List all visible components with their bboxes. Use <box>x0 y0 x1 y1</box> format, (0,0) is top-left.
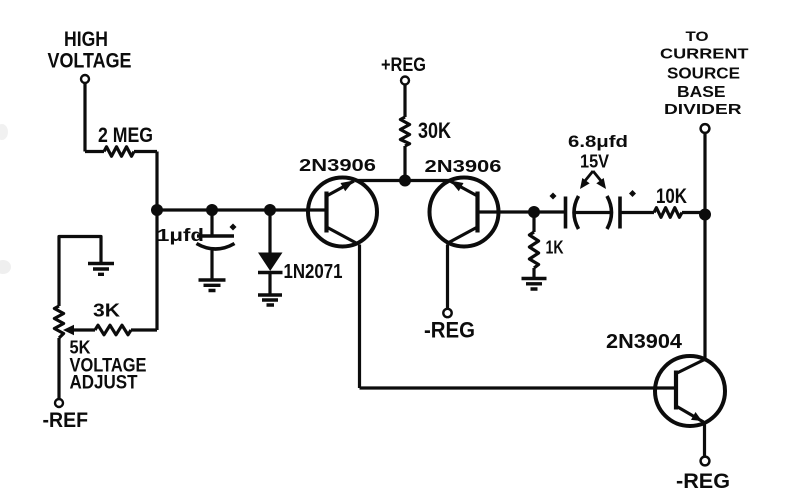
svg-text:-REF: -REF <box>43 409 89 432</box>
wire 10K to node F <box>682 211 705 214</box>
wire between capacitors <box>573 211 612 214</box>
svg-text:30K: 30K <box>418 118 451 143</box>
terminal -REG (Q3) <box>701 457 710 466</box>
svg-text:2 MEG: 2 MEG <box>98 124 153 147</box>
resistor 30K <box>400 117 409 146</box>
capacitor C3 6.8ufd plate <box>618 197 622 229</box>
resistor 10K <box>654 208 682 218</box>
svg-text:3K: 3K <box>93 301 120 321</box>
transistor Q1 2N3906 <box>308 178 377 247</box>
wire Q1 emitter to rail <box>355 179 405 182</box>
svg-text:1K: 1K <box>546 238 564 258</box>
capacitor 1ufd curved plate <box>197 244 235 250</box>
wiper arrow of pot <box>63 325 74 335</box>
svg-text:HIGH: HIGH <box>64 28 108 51</box>
svg-text:TO: TO <box>686 28 709 44</box>
terminal TO CURRENT SOURCE <box>701 124 710 133</box>
svg-text:CURRENT: CURRENT <box>660 47 749 63</box>
resistor 3K <box>95 325 131 335</box>
wire pot top U-shape <box>59 237 101 307</box>
scan smudge left edge lower <box>0 260 11 274</box>
wire 30K to rail <box>403 146 406 181</box>
wire 1K to ground <box>532 268 535 278</box>
terminal +REG <box>401 77 409 85</box>
svg-text:-REG: -REG <box>424 318 475 343</box>
wire divider terminal down to Q3 collector <box>703 133 706 360</box>
wire rail to Q2 emitter <box>405 179 451 182</box>
polarity + of C3 <box>629 190 636 197</box>
resistor 2 MEG <box>104 147 134 156</box>
wire node C to diode <box>268 210 271 253</box>
ground (1ufd) <box>199 280 226 291</box>
node E junction <box>528 206 540 218</box>
svg-text:-REG: -REG <box>676 470 730 490</box>
label 5K VOLTAGE ADJUST <box>70 338 147 394</box>
transistor Q3 2N3904 <box>655 356 725 426</box>
polarity + of C2 <box>550 193 557 200</box>
svg-text:+REG: +REG <box>381 55 426 76</box>
wire diode to ground <box>268 273 271 295</box>
diode 1N2071 <box>258 253 283 273</box>
svg-text:BASE: BASE <box>677 84 726 101</box>
terminal -REF <box>55 399 63 407</box>
terminal -REG (Q2) <box>443 309 451 317</box>
wire C3 to 10K <box>620 211 654 214</box>
wire node E to 1K <box>532 212 535 232</box>
label TO CURRENT SOURCE BASE DIVIDER <box>660 28 749 118</box>
svg-text:ADJUST: ADJUST <box>70 373 138 394</box>
ground (pot top) <box>88 264 114 275</box>
polarity + of 1ufd <box>230 224 237 231</box>
node D junction (+REG rail) <box>399 175 411 187</box>
wire pot to -REF <box>57 338 60 399</box>
transistor Q2 2N3906 <box>430 178 499 247</box>
wire Q1 collector down <box>358 245 361 389</box>
svg-text:10K: 10K <box>656 184 687 208</box>
wire 2MEG to corner <box>134 150 157 153</box>
capacitor C3 curved plate <box>607 196 612 229</box>
potentiometer 5K <box>54 306 63 338</box>
capacitor C2 6.8ufd plate <box>564 197 568 229</box>
pointer 15V right arrow <box>593 171 606 189</box>
node B junction <box>206 204 218 216</box>
wire main rail <box>157 208 327 211</box>
svg-text:SOURCE: SOURCE <box>667 66 740 83</box>
svg-text:VOLTAGE: VOLTAGE <box>48 50 132 73</box>
pointer 15V left arrow <box>580 171 593 189</box>
wire wiper to 3K <box>72 328 95 331</box>
wire +REG to 30K <box>403 85 406 118</box>
wire to 2MEG <box>85 150 104 153</box>
svg-text:1N2071: 1N2071 <box>284 261 343 283</box>
capacitor 1ufd top plate <box>197 234 234 238</box>
scan smudge left edge upper <box>0 124 8 140</box>
svg-text:2N3906: 2N3906 <box>299 155 376 175</box>
node C junction <box>264 204 276 216</box>
terminal HIGH VOLTAGE <box>81 75 89 83</box>
wire vertical down to 3K level <box>155 152 158 331</box>
wire Q3 emitter down <box>703 423 706 457</box>
wire node B to capacitor <box>210 210 213 236</box>
wire high-voltage down <box>83 83 86 151</box>
node A junction <box>151 204 163 216</box>
svg-text:2N3906: 2N3906 <box>425 156 502 176</box>
ground (diode) <box>258 295 282 305</box>
capacitor C2 curved plate <box>574 196 579 229</box>
svg-text:DIVIDER: DIVIDER <box>664 101 742 118</box>
wire Q2 base to node E <box>478 210 566 213</box>
svg-text:2N3904: 2N3904 <box>606 331 683 353</box>
svg-text:1μfd: 1μfd <box>157 225 204 245</box>
svg-text:6.8μfd: 6.8μfd <box>568 133 628 151</box>
node F junction <box>699 209 711 221</box>
resistor 1K <box>529 232 538 268</box>
wire capacitor to ground <box>210 251 213 281</box>
wire Q2 collector down <box>446 245 449 309</box>
wire 3K to vertical <box>131 328 157 331</box>
label HIGH VOLTAGE <box>48 28 132 73</box>
wire feedback to Q3 base <box>360 386 677 389</box>
svg-text:15V: 15V <box>580 152 609 172</box>
ground (1K) <box>522 279 547 290</box>
